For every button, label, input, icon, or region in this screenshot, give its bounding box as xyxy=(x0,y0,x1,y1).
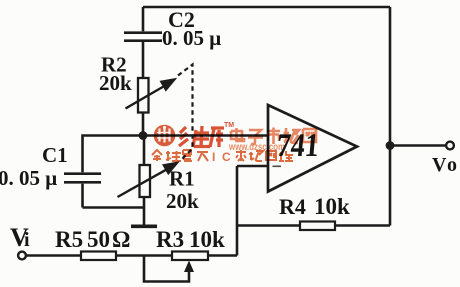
terminal Vi xyxy=(18,252,26,260)
wire top rail xyxy=(143,6,390,9)
wire R2 bottom to node A xyxy=(142,113,145,136)
watermark slogan xyxy=(152,150,208,161)
svg-text:R1: R1 xyxy=(169,167,195,191)
resistor R1 (body) xyxy=(140,165,151,197)
op-amp inverting input minus sign xyxy=(273,165,282,167)
wire right vertical from top rail to output node xyxy=(389,7,392,146)
op-amp U1 (741) xyxy=(268,105,357,192)
node output (junction dot) xyxy=(386,141,395,150)
svg-text:I: I xyxy=(212,150,215,164)
watermark xyxy=(152,122,316,164)
svg-text:V: V xyxy=(432,154,447,176)
wire C1 bottom rail to R1 bottom xyxy=(83,206,145,209)
svg-text:20k: 20k xyxy=(99,71,132,95)
resistor R1 wiper arrow xyxy=(118,162,179,197)
wire inverting input xyxy=(237,165,268,168)
wire R3 right side xyxy=(208,254,237,257)
svg-text:R5: R5 xyxy=(55,227,83,252)
capacitor C2 xyxy=(124,33,162,41)
watermark text dianzishichangwang xyxy=(231,128,316,145)
wire R4 left to feedback vertical xyxy=(237,224,300,227)
svg-text:R4: R4 xyxy=(279,194,306,219)
capacitor C1 xyxy=(64,174,101,183)
wire output node down to R4 xyxy=(389,146,392,226)
resistor R3 wiper arrow xyxy=(184,261,194,273)
wire C2 top stub xyxy=(142,7,145,31)
wire R3 wiper loop xyxy=(144,256,189,282)
wire bottom input rail Vi to R5 xyxy=(27,254,82,257)
wire output stub to terminal xyxy=(390,144,446,147)
watermark text weiku xyxy=(179,126,224,147)
resistor R3 (body, potentiometer) xyxy=(172,252,208,261)
ground xyxy=(131,225,157,229)
svg-text:C: C xyxy=(222,150,231,164)
svg-text:R3: R3 xyxy=(156,227,184,252)
resistor R5 (body) xyxy=(81,252,116,261)
svg-text:i: i xyxy=(24,229,30,251)
wire R1 bottom to ground xyxy=(143,197,146,225)
wire R4 right side xyxy=(335,224,390,227)
svg-text:10k: 10k xyxy=(189,227,225,252)
svg-text:0. 05 μ: 0. 05 μ xyxy=(0,166,57,190)
wire node A left to C1 branch xyxy=(83,136,144,173)
svg-text:o: o xyxy=(447,154,457,176)
wire feedback vertical (R3/R4 to inverting input) xyxy=(236,166,239,256)
svg-text:TM: TM xyxy=(224,122,234,129)
resistor R4 (body) xyxy=(300,222,335,231)
node A (junction dot) xyxy=(139,131,148,140)
wire node A to R1 top xyxy=(143,136,146,166)
svg-text:Ω: Ω xyxy=(112,227,130,252)
svg-text:10k: 10k xyxy=(314,194,350,219)
svg-text:50: 50 xyxy=(87,227,110,252)
wire C2 bottom stub to R2 xyxy=(142,42,145,78)
wire node A to non-inverting input xyxy=(143,134,268,137)
dashed gang coupling line R2-R1 xyxy=(178,65,193,162)
terminal Vo xyxy=(446,142,454,150)
wire R5 to R3 xyxy=(116,254,172,257)
wire C1 bottom stub xyxy=(81,184,84,208)
watermark logo circle xyxy=(154,125,176,147)
svg-text:0. 05 μ: 0. 05 μ xyxy=(162,26,221,50)
svg-text:20k: 20k xyxy=(166,189,199,213)
resistor R2 (body) xyxy=(138,78,149,113)
resistor R2 wiper arrow xyxy=(126,79,177,109)
svg-text:C1: C1 xyxy=(42,143,68,167)
